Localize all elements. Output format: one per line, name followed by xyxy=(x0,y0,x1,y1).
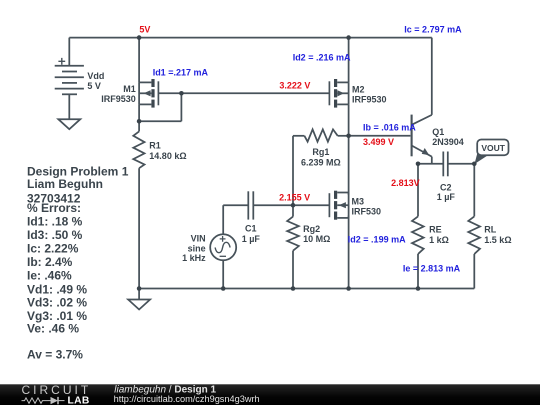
svg-text:C2: C2 xyxy=(440,182,452,192)
svg-text:M1: M1 xyxy=(123,84,136,94)
svg-text:http://circuitlab.com/czh9gsn4: http://circuitlab.com/czh9gsn4g3wrh xyxy=(114,394,260,404)
svg-text:M3: M3 xyxy=(352,196,365,206)
ground (signal) xyxy=(128,300,150,310)
svg-text:5V: 5V xyxy=(139,25,150,35)
wire R1 bottom lead xyxy=(138,168,140,288)
svg-text:Ib = .016 mA: Ib = .016 mA xyxy=(363,123,416,133)
node bottom rail M3 source xyxy=(346,286,351,291)
svg-text:3.499 V: 3.499 V xyxy=(363,137,394,147)
node bottom rail R1/ground xyxy=(137,286,142,291)
svg-text:2.813V: 2.813V xyxy=(391,178,420,188)
svg-text:Ic: 2.22%: Ic: 2.22% xyxy=(27,242,79,256)
svg-text:Id2 = .199 mA: Id2 = .199 mA xyxy=(348,235,406,245)
svg-text:3.222 V: 3.222 V xyxy=(279,80,310,90)
svg-text:Ie = 2.813 mA: Ie = 2.813 mA xyxy=(403,263,461,273)
node bottom rail Rg2 xyxy=(291,286,296,291)
resistor RL xyxy=(468,216,480,254)
wire top 5V rail xyxy=(69,37,432,39)
wire Rg1 left lead xyxy=(293,135,304,137)
wire bottom rail xyxy=(139,288,474,290)
svg-text:Id3: .50 %: Id3: .50 % xyxy=(27,228,83,242)
wire C1 left lead xyxy=(223,204,248,206)
wire node A to M2 gate xyxy=(181,92,329,94)
capacitor C2 xyxy=(443,152,448,177)
resistor Rg1 xyxy=(304,129,337,141)
svg-text:Rg1: Rg1 xyxy=(312,147,329,157)
svg-text:Av = 3.7%: Av = 3.7% xyxy=(27,348,83,362)
node gate row / Rg2 xyxy=(291,203,296,208)
wire M3 drain lead xyxy=(348,136,350,195)
transistor M2 xyxy=(329,79,348,108)
wire M3 source lead xyxy=(348,216,350,289)
svg-text:Ve: .46 %: Ve: .46 % xyxy=(27,322,79,336)
wire M1 drain lead xyxy=(138,104,140,121)
wire Q1 base xyxy=(349,135,411,137)
voltage source VIN xyxy=(210,234,236,260)
svg-text:LAB: LAB xyxy=(68,396,90,405)
svg-text:6.239 MΩ: 6.239 MΩ xyxy=(301,158,341,168)
svg-text:Vd1: .49 %: Vd1: .49 % xyxy=(27,282,87,296)
svg-text:Id1: .18 %: Id1: .18 % xyxy=(27,215,83,229)
capacitor C1 xyxy=(248,191,253,219)
svg-text:Vg3: .01 %: Vg3: .01 % xyxy=(27,309,87,323)
svg-text:IRF9530: IRF9530 xyxy=(352,95,387,105)
wire battery top lead xyxy=(68,38,70,66)
svg-text:1 µF: 1 µF xyxy=(242,234,261,244)
resistor R1 xyxy=(133,131,144,168)
svg-text:RE: RE xyxy=(429,225,442,235)
svg-text:Liam Beguhn: Liam Beguhn xyxy=(27,177,103,191)
wire M2 source lead xyxy=(348,38,350,83)
wire RE top lead xyxy=(417,164,419,217)
wire Q1 collector drop xyxy=(431,38,433,115)
wire M1 gate to node A xyxy=(158,92,181,94)
svg-text:1 µF: 1 µF xyxy=(437,192,456,202)
svg-text:VIN: VIN xyxy=(191,234,206,244)
svg-text:Q1: Q1 xyxy=(432,127,444,137)
svg-text:IRF9530: IRF9530 xyxy=(101,94,136,104)
svg-text:RL: RL xyxy=(484,225,496,235)
wire emitter row to C2 xyxy=(418,163,443,165)
wire gate-drain tie vertical xyxy=(180,93,182,121)
wire RE bottom lead xyxy=(417,254,419,289)
resistor RE xyxy=(412,216,424,254)
wire Rg1 corner drop xyxy=(292,136,294,205)
wire VIN top lead xyxy=(222,205,224,235)
wire gate-drain tie horizontal xyxy=(139,120,181,122)
node M1 drain / R1 xyxy=(137,119,142,124)
svg-text:1 kHz: 1 kHz xyxy=(182,253,206,263)
node bottom rail RE xyxy=(416,286,421,291)
svg-text:1.5 kΩ: 1.5 kΩ xyxy=(484,235,511,245)
wire C1 right to gate row xyxy=(253,204,329,206)
svg-text:Id2 = .216 mA: Id2 = .216 mA xyxy=(293,52,351,62)
wire Rg1 right lead xyxy=(338,135,349,137)
logo zigzag resistor xyxy=(22,398,48,403)
node M1 gate tie xyxy=(179,91,184,96)
svg-text:10 MΩ: 10 MΩ xyxy=(303,234,330,244)
svg-text:Vd3: .02 %: Vd3: .02 % xyxy=(27,295,87,309)
svg-text:Id1 =.217 mA: Id1 =.217 mA xyxy=(153,67,209,77)
wire ground stub xyxy=(138,289,140,300)
svg-text:sine: sine xyxy=(188,243,206,253)
wire RL bottom lead xyxy=(473,254,475,289)
ground (battery) xyxy=(58,119,80,129)
svg-text:VOUT: VOUT xyxy=(481,143,505,153)
wire R1 top lead xyxy=(138,121,140,131)
wire VIN bottom lead xyxy=(222,260,224,288)
svg-text:5 V: 5 V xyxy=(87,81,101,91)
wire M1 source lead xyxy=(138,38,140,83)
wire Rg2 bottom lead xyxy=(292,251,294,289)
wire Rg2 top lead xyxy=(292,205,294,216)
transistor Q1 xyxy=(412,115,432,157)
svg-text:C1: C1 xyxy=(245,223,257,233)
svg-text:IRF530: IRF530 xyxy=(352,207,382,217)
svg-text:Ib: 2.4%: Ib: 2.4% xyxy=(27,255,73,269)
node 5V rail at M1 xyxy=(137,35,142,40)
svg-text:Vdd: Vdd xyxy=(87,71,104,81)
wire M2 drain lead xyxy=(348,104,350,135)
transistor M3 xyxy=(329,191,348,220)
svg-text:Rg2: Rg2 xyxy=(303,224,320,234)
wire C2 right to VOUT node xyxy=(448,163,475,165)
node bottom rail VIN xyxy=(221,286,226,291)
svg-text:Ie: .46%: Ie: .46% xyxy=(27,268,72,282)
resistor Rg2 xyxy=(287,217,299,251)
wire Q1 emitter vertical xyxy=(431,157,433,164)
battery Vdd xyxy=(55,58,84,119)
node Rg1 / M2 drain / M3 drain / Q1 base xyxy=(346,134,351,139)
svg-text:Ic = 2.797 mA: Ic = 2.797 mA xyxy=(404,24,462,34)
svg-text:2.155 V: 2.155 V xyxy=(279,192,310,202)
node emitter / RE xyxy=(416,162,421,167)
svg-text:14.80 kΩ: 14.80 kΩ xyxy=(149,151,186,161)
node 5V rail at M2 xyxy=(346,35,351,40)
svg-text:R1: R1 xyxy=(149,141,161,151)
svg-text:% Errors:: % Errors: xyxy=(27,201,81,215)
svg-text:2N3904: 2N3904 xyxy=(432,137,464,147)
node VOUT xyxy=(472,162,477,167)
text block design notes xyxy=(27,165,129,362)
logo diode xyxy=(48,397,65,404)
VOUT flag xyxy=(475,140,509,165)
svg-text:1 kΩ: 1 kΩ xyxy=(429,235,449,245)
svg-text:M2: M2 xyxy=(352,84,365,94)
wire RL top lead xyxy=(473,164,475,217)
transistor M1 xyxy=(139,79,158,108)
